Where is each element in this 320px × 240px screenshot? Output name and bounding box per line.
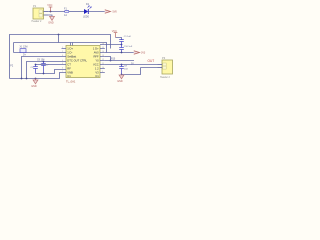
pin 1 stub P3 [158, 64, 163, 66]
svg-text:DTC OUT CTRL: DTC OUT CTRL [67, 59, 87, 63]
svg-text:LED0: LED0 [83, 15, 90, 18]
capacitor C10 [119, 45, 133, 53]
wire XI row [14, 52, 62, 54]
svg-text:15: 15 [102, 47, 104, 49]
wire UD row [27, 62, 62, 79]
connector P3 [160, 56, 173, 79]
svg-text:C1: C1 [67, 74, 71, 78]
svg-text:11: 11 [102, 63, 104, 65]
junction rail A [58, 34, 60, 36]
svg-text:C1 1uF: C1 1uF [124, 36, 132, 38]
wire link rails [58, 35, 60, 43]
pin 2 stub P1 [44, 14, 49, 16]
crystal X1 [20, 47, 28, 53]
power port 3V3 (arrow right) [134, 51, 146, 55]
svg-text:1: 1 [62, 47, 63, 49]
wire rail B [14, 43, 107, 53]
wire R row [105, 57, 111, 61]
svg-text:AV0: AV0 [94, 51, 99, 55]
svg-text:3: 3 [62, 55, 63, 57]
svg-text:VCC: VCC [47, 4, 52, 7]
power port GND right [117, 75, 124, 83]
svg-text:1A: 1A [64, 14, 67, 17]
svg-text:3V3: 3V3 [141, 52, 146, 55]
wire zigzag to pin [36, 70, 62, 74]
wire 5V row [105, 60, 134, 62]
svg-text:V3: V3 [95, 71, 99, 75]
wire row4 [36, 64, 62, 66]
wire P3 pin2 row [141, 67, 158, 69]
svg-text:RF: RF [67, 67, 71, 71]
IC top pin b [72, 43, 74, 46]
svg-text:7: 7 [62, 71, 63, 73]
junction VCC [50, 11, 52, 13]
junction VCC right [121, 44, 123, 46]
svg-text:Y0: Y0 [95, 59, 99, 63]
capacitor C1 [119, 36, 131, 44]
junction zigzag [43, 73, 45, 75]
svg-text:GND: GND [31, 85, 37, 88]
connector P1 [32, 4, 44, 23]
svg-text:5V0: 5V0 [113, 11, 118, 14]
wire fuse to LED [69, 11, 84, 13]
junction C8 [121, 64, 123, 66]
pin 2 stub P3 [158, 67, 163, 69]
capacitor C8 [119, 65, 128, 75]
wire GND return [122, 68, 141, 75]
svg-text:TL_0A1: TL_0A1 [66, 79, 76, 83]
IC top pin a [70, 43, 72, 46]
IC pin texts [67, 47, 99, 78]
wire rail A top [10, 35, 111, 79]
junction bottom 3 [35, 78, 37, 80]
IC pin numbers left [62, 47, 63, 73]
wire LED to port [88, 11, 105, 13]
power port GND (arrow down) [48, 16, 54, 24]
LED D1 [83, 3, 91, 18]
junction bottom 1 [21, 78, 23, 80]
wire VCC pin right [105, 44, 122, 46]
svg-text:1 D+: 1 D+ [93, 47, 99, 51]
fuse F1 [64, 7, 69, 17]
svg-text:1 2: 1 2 [95, 67, 99, 71]
wire left v1 [13, 43, 15, 53]
svg-text:RFF: RFF [93, 55, 99, 59]
svg-text:VCC: VCC [112, 30, 117, 33]
wire 3V3 row [105, 52, 134, 54]
svg-text:VNB: VNB [67, 71, 73, 75]
svg-text:SetBatt: SetBatt [67, 55, 76, 59]
IC left pin stubs [62, 49, 67, 73]
IC U1 [66, 46, 100, 84]
wire VCC stem to caps [116, 38, 122, 41]
svg-text:X1 12M: X1 12M [20, 47, 28, 49]
pin 1 stub P1 [44, 11, 49, 13]
svg-text:6: 6 [62, 68, 63, 70]
svg-text:VCC: VCC [93, 63, 99, 67]
wire P1 pin2 to GND [48, 15, 52, 16]
svg-text:C10 1uF: C10 1uF [124, 46, 133, 48]
svg-text:R10: R10 [111, 59, 116, 61]
wire XO row [22, 57, 62, 79]
svg-text:4: 4 [62, 60, 63, 62]
svg-text:1 D+: 1 D+ [67, 47, 73, 51]
svg-text:2: 2 [62, 51, 63, 53]
power port VCC right [112, 30, 118, 37]
power port VCC [47, 4, 52, 11]
svg-text:5: 5 [62, 63, 63, 65]
svg-text:Header 2: Header 2 [160, 76, 171, 79]
capacitor C7 (polarized) [40, 62, 49, 74]
svg-text:Header 2: Header 2 [32, 20, 43, 23]
svg-text:1 D-: 1 D- [67, 51, 72, 55]
junction R [110, 60, 112, 62]
svg-text:GND: GND [48, 21, 54, 24]
svg-text:C1: C1 [95, 74, 99, 78]
IC right pin stubs [100, 45, 105, 73]
svg-text:P1: P1 [33, 4, 37, 8]
IC pin numbers right [102, 43, 104, 73]
svg-text:P3: P3 [162, 56, 166, 60]
svg-text:13: 13 [102, 55, 104, 57]
svg-text:10: 10 [102, 67, 104, 69]
junction cap B [43, 61, 45, 63]
capacitor C5 [31, 65, 38, 74]
junction 3V3 [121, 52, 123, 54]
power port GND bottom left [31, 79, 38, 88]
svg-text:9: 9 [102, 71, 103, 73]
svg-text:CT: CT [67, 63, 71, 67]
junction bottom 2 [26, 78, 28, 80]
power port 5V (arrow right) [105, 10, 118, 14]
sheet background [0, 0, 185, 100]
junction cap A [35, 64, 37, 66]
svg-text:OUT: OUT [148, 59, 155, 63]
svg-text:GND: GND [117, 80, 123, 83]
junction GND return [121, 74, 123, 76]
wire P1 pin1 to fuse [48, 11, 65, 13]
svg-text:12: 12 [102, 59, 104, 61]
bottom rail [10, 73, 62, 79]
svg-text:14: 14 [102, 51, 104, 53]
svg-text:16: 16 [102, 43, 104, 45]
wire OUT row [105, 64, 158, 66]
